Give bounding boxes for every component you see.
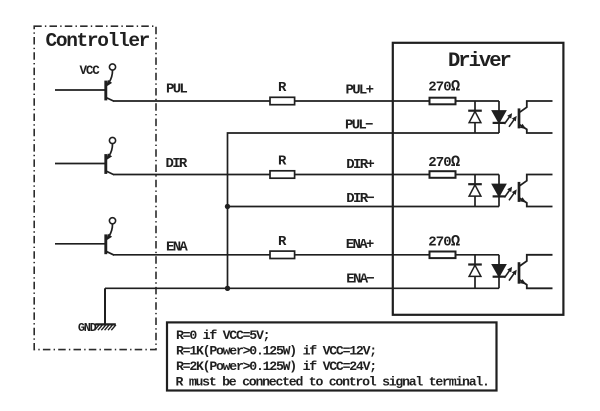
wire: PUL signal line to driver [114, 100, 500, 102]
optocoupler light arrows (ENA) [504, 270, 514, 280]
svg-text:DIR−: DIR− [346, 191, 374, 207]
junction: bus / DIR- [225, 204, 230, 209]
wire: ENA base input [55, 243, 106, 245]
svg-text:R: R [278, 80, 287, 96]
svg-text:R must be connected to control: R must be connected to control signal te… [176, 375, 489, 390]
LED D2 (optocoupler emitter diode) [493, 101, 506, 133]
svg-text:R: R [278, 154, 287, 170]
resistor R4 270ohm (driver input) [430, 98, 456, 105]
svg-text:PUL−: PUL− [345, 118, 373, 134]
transistor Q2 (controller open-collector output, DIR) [106, 137, 116, 175]
svg-text:Driver: Driver [448, 50, 511, 73]
controller box (dash-dot border) [34, 26, 156, 349]
resistor R3 (series R, ENA) [270, 251, 295, 258]
svg-text:270Ω: 270Ω [428, 153, 460, 171]
svg-text:GND: GND [78, 321, 97, 335]
svg-text:Controller: Controller [46, 30, 150, 52]
svg-text:DIR: DIR [166, 156, 188, 172]
LED D4 (optocoupler emitter diode) [493, 175, 506, 207]
svg-text:R: R [278, 234, 287, 250]
resistor R5 270ohm (driver input) [430, 171, 456, 178]
transistor Q1 (controller open-collector output, PUL) [106, 64, 116, 102]
junction: bus / ENA- [225, 286, 230, 291]
note box [167, 322, 497, 390]
wire: ground riser [104, 288, 106, 324]
svg-text:PUL: PUL [166, 82, 187, 98]
phototransistor U2 (optocoupler output) [519, 175, 553, 207]
optocoupler light arrows (PUL) [504, 116, 514, 126]
wire: DIR base input [55, 163, 106, 165]
wire: DIR signal line to driver [114, 174, 500, 176]
wire: DIR- return [228, 206, 500, 208]
transistor Q3 (controller open-collector output, ENA) [106, 218, 116, 256]
resistor R2 (series R, DIR) [270, 171, 295, 178]
svg-text:ENA+: ENA+ [346, 237, 374, 253]
wire: ENA- return to ground [105, 287, 499, 289]
wire: PUL- return and common bus [228, 133, 500, 288]
svg-text:R=1K(Power>0.125W) if VCC=12V;: R=1K(Power>0.125W) if VCC=12V; [176, 343, 376, 358]
svg-text:R=0 if VCC=5V;: R=0 if VCC=5V; [176, 328, 269, 343]
driver box [393, 43, 564, 315]
resistor R1 (series R, PUL) [270, 97, 295, 104]
diode D1 (reverse protection) [468, 101, 482, 133]
svg-text:DIR+: DIR+ [346, 157, 374, 173]
svg-text:270Ω: 270Ω [428, 233, 460, 251]
diode D3 (reverse protection) [468, 175, 482, 207]
svg-text:270Ω: 270Ω [428, 78, 460, 96]
LED D6 (optocoupler emitter diode) [493, 255, 506, 288]
svg-text:ENA−: ENA− [346, 272, 374, 288]
resistor R6 270ohm (driver input) [430, 252, 456, 259]
svg-text:R=2K(Power>0.125W) if VCC=24V;: R=2K(Power>0.125W) if VCC=24V; [176, 359, 376, 374]
optocoupler light arrows (DIR) [504, 190, 514, 200]
ground symbol [95, 324, 116, 330]
wire: ENA signal line to driver [114, 254, 500, 256]
wire: PUL base input [55, 89, 106, 91]
phototransistor U3 (optocoupler output) [519, 255, 553, 288]
svg-text:PUL+: PUL+ [346, 83, 374, 99]
svg-text:VCC: VCC [80, 64, 101, 78]
svg-text:ENA: ENA [166, 240, 188, 256]
diode D5 (reverse protection) [468, 255, 482, 288]
phototransistor U1 (optocoupler output) [519, 101, 553, 133]
